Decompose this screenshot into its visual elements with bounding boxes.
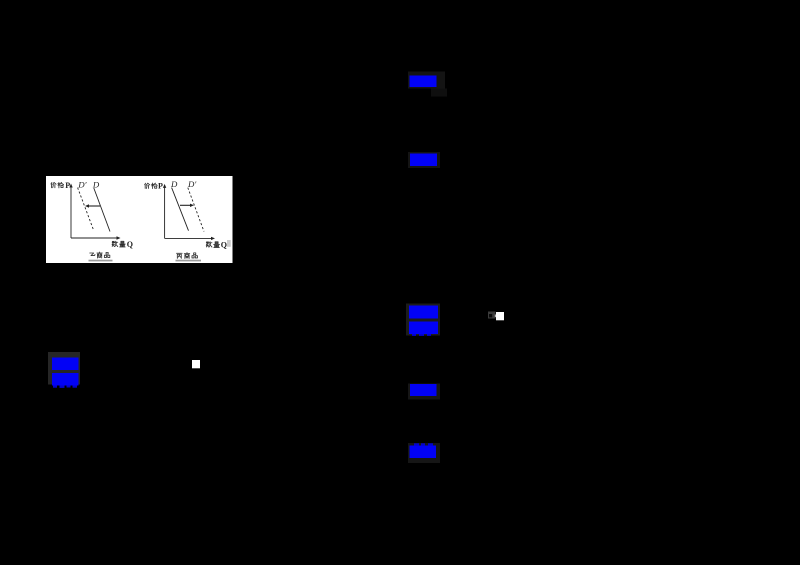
- svg-text:P: P: [65, 181, 70, 190]
- svg-text:D′: D′: [187, 179, 197, 189]
- svg-text:D′: D′: [77, 179, 87, 189]
- svg-text:Q: Q: [127, 240, 133, 249]
- svg-text:Q: Q: [221, 241, 227, 250]
- svg-text:D: D: [92, 179, 100, 189]
- svg-text:D: D: [170, 179, 178, 189]
- svg-text:P: P: [158, 181, 163, 190]
